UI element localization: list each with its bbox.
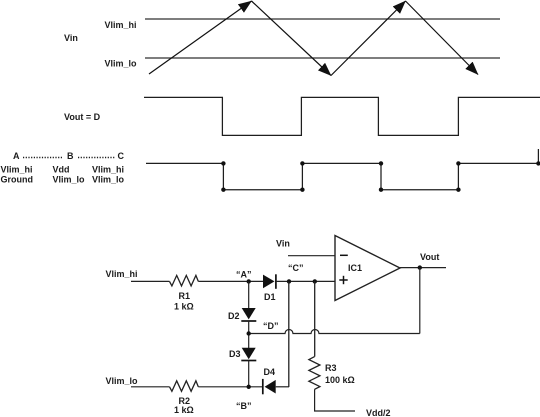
diode D4 (263, 379, 276, 394)
wire feedback horizontal with hops to node D (249, 330, 420, 334)
wire dotted leader B to C (78, 157, 115, 159)
svg-text:C: C (118, 151, 125, 161)
wire D2 to node D (248, 321, 250, 348)
svg-text:Vlim_lo: Vlim_lo (106, 376, 139, 386)
wire Vin to inverting input (288, 255, 335, 257)
wire Vout square wave (144, 97, 540, 135)
svg-text:100 kΩ: 100 kΩ (325, 375, 355, 385)
wire D1 to op-amp non-inverting input (276, 280, 335, 282)
svg-text:D1: D1 (264, 292, 276, 302)
svg-text:Vlim_hi: Vlim_hi (105, 20, 137, 30)
svg-text:Vlim_hi: Vlim_hi (1, 165, 33, 175)
node C junction dot (287, 279, 291, 283)
svg-text:1 kΩ: 1 kΩ (174, 405, 194, 415)
svg-text:“A”: “A” (236, 270, 252, 280)
wire Vlim_hi input to R1 (131, 280, 170, 282)
svg-text:Vlim_lo: Vlim_lo (92, 175, 125, 185)
wire R2 to node B (198, 386, 262, 388)
wire dotted leader A to B (23, 157, 63, 159)
wire op-amp output to Vout (400, 267, 446, 269)
wire triangle wave rising segment 1 with arrow (149, 1, 252, 74)
svg-text:Vout: Vout (420, 252, 439, 262)
svg-text:D3: D3 (229, 349, 241, 359)
wire node C down to D4 (288, 281, 290, 387)
svg-text:Vin: Vin (64, 33, 78, 43)
svg-text:A: A (13, 151, 20, 161)
svg-text:Vlim_lo: Vlim_lo (105, 59, 138, 69)
wire comparator state square wave (waveform 3) (146, 149, 538, 190)
wire Vlim_lo threshold line (waveform 1) (145, 57, 500, 59)
svg-text:“B”: “B” (236, 401, 252, 411)
op-amp IC1 (335, 236, 400, 301)
resistor R2 (170, 381, 199, 392)
node junction dots on waveform 3 (221, 161, 540, 192)
wire R3 tap down to R3 (314, 281, 316, 356)
wire R1 to node A (198, 280, 263, 282)
node D junction dot (247, 331, 251, 335)
node B junction dot (247, 385, 251, 389)
diode D3 (241, 348, 256, 361)
svg-text:Vout = D: Vout = D (64, 112, 101, 122)
svg-text:Ground: Ground (1, 175, 34, 185)
svg-text:Vin: Vin (276, 239, 290, 249)
diode D1 (263, 274, 276, 289)
svg-text:D4: D4 (264, 367, 276, 377)
wire triangle wave falling segment 2 with arrow (406, 1, 479, 75)
wire triangle wave falling segment 1 with arrow (252, 1, 332, 76)
svg-text:D2: D2 (228, 311, 240, 321)
svg-text:Vdd/2: Vdd/2 (366, 408, 391, 417)
svg-text:Vlim_hi: Vlim_hi (106, 269, 138, 279)
svg-text:1 kΩ: 1 kΩ (174, 302, 194, 312)
wire R3 to Vdd/2 (315, 389, 355, 411)
node junction dot at R3 tap (313, 279, 317, 283)
svg-text:IC1: IC1 (348, 263, 362, 273)
node A junction dot (247, 279, 251, 283)
wire D3 to node B (248, 361, 250, 387)
svg-text:B: B (67, 151, 74, 161)
resistor R1 (170, 275, 199, 286)
svg-text:R1: R1 (179, 291, 191, 301)
wire triangle wave rising segment 2 with arrow (331, 1, 406, 76)
wire feedback from Vout down (419, 268, 421, 334)
node Vout junction dot (418, 265, 422, 269)
svg-text:“D”: “D” (263, 321, 279, 331)
resistor R3 (309, 357, 320, 390)
svg-text:Vlim_lo: Vlim_lo (53, 175, 86, 185)
svg-text:Vdd: Vdd (53, 165, 70, 175)
svg-text:Vlim_hi: Vlim_hi (92, 165, 124, 175)
svg-text:R3: R3 (325, 363, 337, 373)
wire Vlim_lo input to R2 (131, 386, 170, 388)
wire Vlim_hi threshold line (waveform 1) (145, 18, 500, 20)
wire D4 anode to node C riser (276, 386, 289, 388)
wire node A down to D2 (248, 281, 250, 308)
svg-text:“C”: “C” (288, 263, 304, 273)
diode D2 (241, 308, 256, 321)
